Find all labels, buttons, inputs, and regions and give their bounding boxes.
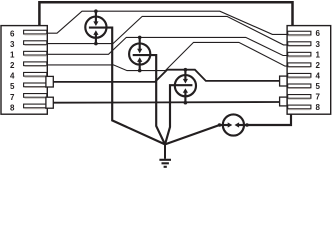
svg-text:8: 8 [10, 103, 15, 112]
svg-text:7: 7 [315, 93, 320, 102]
surge arrester GDT4 (horizontal, 7/8 to ground) [165, 114, 291, 144]
svg-text:6: 6 [315, 29, 320, 38]
svg-text:1: 1 [10, 51, 15, 60]
junction dot GDT2 top [138, 36, 142, 40]
left pin 4 [24, 72, 47, 76]
junction dot GDT1 bottom [94, 42, 98, 46]
svg-text:8: 8 [315, 103, 320, 112]
junction dot GDT2 bottom [138, 69, 142, 73]
svg-text:4: 4 [10, 72, 15, 81]
svg-text:3: 3 [315, 40, 320, 49]
wire pair 3-6 : left pin 6 to right pin 6 [47, 11, 289, 34]
ground stem [164, 144, 166, 159]
svg-text:5: 5 [315, 82, 320, 91]
svg-text:6: 6 [10, 29, 15, 38]
junction dot GDT3 bottom [184, 101, 188, 105]
right pin 7 [288, 95, 311, 99]
svg-text:2: 2 [10, 61, 15, 70]
left pin 3 [24, 41, 47, 45]
right connector RJ45 [280, 26, 331, 115]
right pin 5 [288, 84, 311, 88]
svg-text:5: 5 [10, 82, 15, 91]
right tab pins 7-8 [280, 97, 287, 106]
left pin 6 [24, 30, 47, 34]
svg-text:2: 2 [315, 61, 320, 70]
left pin 5 [24, 83, 47, 87]
left pin labels [10, 29, 15, 112]
left connector RJ45 [1, 26, 53, 115]
left tab pins 4-5 [46, 76, 53, 87]
wire pair 7/8 [53, 101, 280, 104]
ground [159, 160, 171, 167]
left pin 8 [24, 104, 47, 108]
junction dot GDT4 left [218, 123, 222, 127]
right pin 1 [288, 52, 311, 56]
svg-text:4: 4 [315, 71, 320, 80]
surge arrester GDT1 (pair 3/6) [85, 11, 165, 144]
right pin 2 [288, 63, 311, 67]
surge arrester GDT2 (pair 1/2) [129, 37, 165, 144]
svg-text:7: 7 [10, 93, 15, 102]
right pin 4 [288, 73, 311, 77]
left tab pins 7-8 [46, 97, 53, 108]
junction dot GDT3 top [184, 68, 188, 72]
wire : left pin 3 to right pin 3 [47, 16, 289, 45]
enclosure top border [39, 2, 292, 25]
left pin 7 [24, 94, 47, 98]
svg-text:1: 1 [315, 50, 320, 59]
svg-text:3: 3 [10, 40, 15, 49]
right pin 3 [288, 42, 311, 46]
wire pair 4/5 [53, 70, 280, 82]
right pin 8 [288, 105, 311, 109]
junction dot GDT1 top [94, 9, 98, 13]
surge arrester GDT3 (pair 4/5 - 7/8) [165, 70, 196, 145]
wire : left pin 1 to right pin 1 [47, 37, 289, 55]
right pin labels [315, 29, 320, 112]
right tab pins 4-5 [280, 76, 287, 86]
junction dot GDT4 right [245, 123, 249, 127]
right pin 6 [288, 31, 311, 35]
left pin 1 [24, 51, 47, 55]
wire : left pin 2 to right pin 2 [47, 42, 289, 70]
left pin 2 [24, 62, 47, 66]
